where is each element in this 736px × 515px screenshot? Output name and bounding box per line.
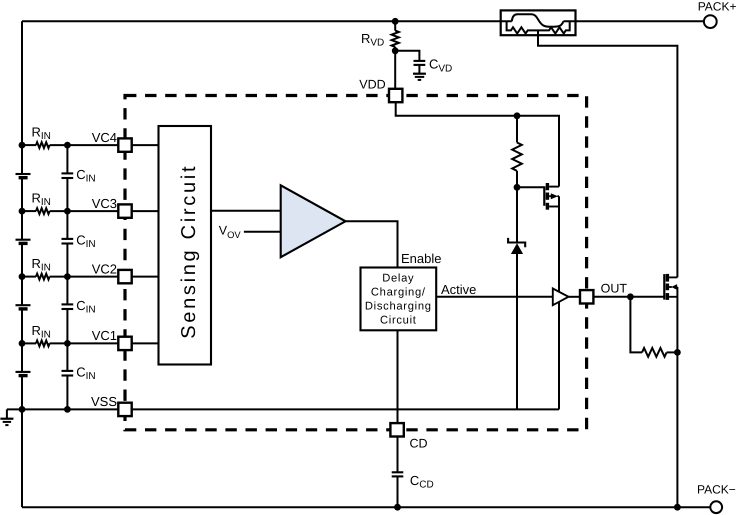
resistor RIN2 row VC2: [36, 274, 50, 280]
svg-text:Circuit: Circuit: [380, 315, 417, 327]
pin OUT: [580, 290, 593, 303]
svg-text:Active: Active: [441, 282, 476, 297]
wire OUT pin to Q1 gate: [593, 296, 664, 298]
svg-text:VC2: VC2: [92, 261, 117, 276]
wire: [66, 244, 68, 277]
wire: [21, 243, 23, 276]
pin VC2: [118, 270, 131, 283]
junction (67.4,211.1): [64, 208, 71, 215]
pin VC3: [118, 204, 131, 217]
capacitor CIN3: [62, 238, 74, 240]
junction (67.4,145.1): [64, 142, 71, 149]
resistor RIN4 row VC4: [36, 142, 50, 148]
pin CD: [390, 423, 403, 436]
wire Q2 drain to VSS rail: [558, 196, 560, 409]
pin VSS: [118, 403, 131, 416]
junction (67.4,276.6): [64, 273, 71, 280]
wire VOV input: [244, 231, 281, 233]
junction (22,145.1): [19, 142, 26, 149]
svg-text:VC1: VC1: [92, 328, 117, 343]
wire: [21, 343, 23, 372]
capacitor CIN1: [62, 370, 74, 372]
terminal PACK+: [704, 15, 717, 28]
resistor RIN1 row VC1: [36, 341, 50, 347]
wire: [397, 476, 399, 507]
wire Active to buffer: [436, 296, 553, 298]
wire: [21, 178, 23, 211]
wire: [132, 144, 159, 146]
svg-text:PACK−: PACK−: [697, 482, 736, 496]
svg-text:Enable: Enable: [401, 251, 441, 266]
wire: [667, 351, 678, 353]
junction (395.2,21.3): [392, 18, 399, 25]
wire RVD leads: [394, 21, 396, 30]
junction (22,276.6): [19, 273, 26, 280]
wire gate of Q2: [517, 186, 544, 188]
transistor Q2 (P-channel MOSFET): [544, 183, 559, 210]
wire sensing to comparator: [211, 210, 281, 212]
wire: [132, 342, 159, 344]
wire: [21, 277, 23, 306]
junction (22,343.4): [19, 340, 26, 347]
resistor RIN3 row VC3: [36, 208, 50, 214]
ground for CVD: [413, 73, 426, 75]
wire comparator output / Enable: [346, 221, 398, 267]
resistor gate-source R1: [630, 297, 642, 353]
wire: [66, 178, 68, 211]
junction (630.4,296.8): [627, 293, 634, 300]
wire battery bottom to pack- rail: [21, 409, 23, 507]
pin VDD: [389, 89, 402, 102]
transistor Q1 (N-channel MOSFET): [664, 274, 677, 300]
junction (517,187.3): [514, 184, 521, 191]
wire: [50, 210, 119, 212]
capacitor CCD: [392, 471, 404, 473]
wire: [66, 376, 68, 410]
battery cell B2: [16, 239, 31, 241]
wire: [66, 309, 68, 343]
wire VDD pin to internal rail: [396, 102, 559, 187]
junction (67.4,343.4): [64, 340, 71, 347]
svg-text:PACK+: PACK+: [698, 0, 736, 13]
fuse SCP box: [501, 10, 576, 35]
wire bottom rail (PACK- net): [22, 506, 710, 508]
wire Q1 source to PACK- rail: [676, 287, 678, 507]
svg-text:CD: CD: [410, 436, 428, 450]
wire CD pin to CCD: [397, 436, 399, 472]
wire: [22, 276, 36, 278]
junction (517,115.8): [514, 112, 521, 119]
wire: [50, 144, 119, 146]
buffer driver: [553, 289, 569, 306]
junction (395.2,50.8): [392, 47, 399, 54]
svg-text:Sensing Circuit: Sensing Circuit: [178, 164, 200, 339]
resistor RVD: [392, 31, 399, 47]
wire: [516, 116, 518, 143]
svg-text:VC3: VC3: [92, 196, 117, 211]
wire VSS row: [7, 408, 118, 410]
fuse SCP heater path with resistors: [507, 21, 570, 33]
wire top rail left (PACK+ net): [22, 20, 512, 22]
svg-text:VC4: VC4: [92, 130, 117, 145]
capacitor CVD: [414, 60, 426, 62]
capacitor CIN2: [62, 303, 74, 305]
resistor internal pull-up: [512, 143, 522, 171]
pin VC4: [118, 138, 131, 151]
wire to CVD: [395, 51, 419, 61]
junction (22,211.1): [19, 208, 26, 215]
battery cell B3: [16, 304, 31, 306]
block Sensing Circuit: [159, 126, 212, 365]
fuse SCP fusible element (dome): [512, 14, 564, 26]
wire: [22, 144, 36, 146]
wire VSS rail inside IC: [132, 408, 559, 410]
wire C_IN column: [66, 145, 68, 173]
junction (67.4,409.4): [64, 406, 71, 413]
wire: [21, 376, 23, 410]
svg-text:VDD: VDD: [359, 78, 385, 92]
capacitor CIN4: [62, 172, 74, 174]
op-amp comparator U1: [281, 185, 346, 257]
wire: [22, 342, 36, 344]
wire: [50, 276, 119, 278]
wire CD line down: [397, 330, 399, 423]
IC boundary dashed box: [125, 96, 587, 430]
resistor R1 zigzag: [642, 348, 667, 357]
wire battery stack vertical top segment: [21, 21, 23, 174]
battery cell B1: [16, 173, 31, 175]
junction (677.4,507.2): [674, 504, 681, 511]
svg-text:Charging/: Charging/: [371, 287, 426, 299]
zener diode D1: [516, 187, 518, 242]
junction (677.4,352.4): [674, 349, 681, 356]
wire: [418, 65, 420, 74]
junction (22,409.4): [19, 406, 26, 413]
ground (pack negative reference): [6, 409, 8, 418]
junction (397.5,507.2): [394, 504, 401, 511]
battery cell B4: [16, 371, 31, 373]
svg-text:VSS: VSS: [91, 394, 117, 409]
wire: [22, 210, 36, 212]
svg-text:Delay: Delay: [382, 273, 414, 285]
wire buffer to OUT pin: [569, 296, 581, 298]
wire: [132, 276, 159, 278]
wire top rail right to PACK+ terminal: [563, 20, 704, 22]
block Delay Charging/Discharging Circuit: [361, 268, 437, 331]
terminal PACK-: [710, 501, 722, 513]
wire SCP heater tap to Q1 drain: [538, 30, 677, 277]
pin VC1: [118, 337, 131, 350]
wire: [21, 211, 23, 240]
svg-text:OUT: OUT: [601, 281, 628, 295]
svg-text:Discharging: Discharging: [365, 301, 432, 313]
wire: [50, 342, 119, 344]
wire: [21, 309, 23, 344]
wire: [132, 210, 159, 212]
